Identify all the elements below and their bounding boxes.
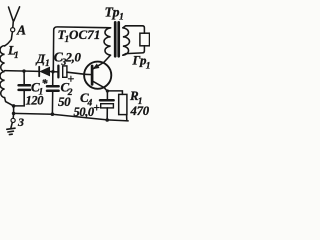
label C1* 120 xyxy=(26,76,49,108)
capacitor C4 xyxy=(94,100,113,120)
svg-text:470: 470 xyxy=(130,104,150,118)
svg-text:Тр: Тр xyxy=(105,5,120,20)
label Gr1 xyxy=(132,53,151,72)
transformer Tr1 xyxy=(104,22,129,56)
wire to R1 top xyxy=(107,91,122,95)
label Tr1 xyxy=(105,5,124,23)
headphone Gr1 xyxy=(140,33,150,46)
svg-text:3: 3 xyxy=(17,115,24,129)
wire L1 tap to diode xyxy=(5,70,39,73)
inductor L1 xyxy=(0,46,5,98)
transistor T1 OC71 xyxy=(84,55,111,99)
wire phones return xyxy=(123,46,144,55)
capacitor C1 xyxy=(14,71,30,106)
svg-text:1: 1 xyxy=(45,59,50,69)
label C3 2,0 xyxy=(54,50,82,68)
node C1 top xyxy=(22,69,25,72)
capacitor C3 xyxy=(58,66,84,82)
wire feedback to transformer xyxy=(53,27,106,72)
label L1 xyxy=(7,43,19,62)
wire secondary to phones xyxy=(123,26,144,33)
svg-text:120: 120 xyxy=(26,94,45,108)
node C4 bottom xyxy=(105,118,109,122)
node detector xyxy=(51,70,54,73)
capacitor C2 xyxy=(47,72,59,114)
node L1 bottom xyxy=(12,104,16,108)
node collector/R1 xyxy=(106,89,109,92)
svg-text:1: 1 xyxy=(14,51,19,61)
terminal 3 xyxy=(11,118,15,122)
label C4 50,0 xyxy=(74,90,95,119)
wire L1 bottom diagonal xyxy=(5,98,14,106)
label R1 470 xyxy=(129,88,150,118)
svg-text:А: А xyxy=(16,23,26,38)
label C2 50 xyxy=(58,80,73,109)
diode D1 xyxy=(39,67,58,76)
svg-text:50: 50 xyxy=(58,94,71,109)
svg-text:ОС71: ОС71 xyxy=(69,27,100,42)
antenna A xyxy=(5,7,20,46)
svg-text:Гр: Гр xyxy=(132,53,147,68)
node C2 bottom xyxy=(51,112,55,116)
svg-text:2,0: 2,0 xyxy=(65,50,82,64)
bottom rail xyxy=(14,113,129,121)
label T1 OC71 xyxy=(58,27,101,45)
wire R1 bottom xyxy=(126,115,128,121)
resistor R1 xyxy=(119,94,127,114)
svg-text:1: 1 xyxy=(119,12,124,23)
svg-text:Д: Д xyxy=(36,52,46,66)
svg-text:*: * xyxy=(42,76,49,90)
node rail left xyxy=(12,112,16,116)
label D1 xyxy=(36,52,50,69)
wire to earth terminal xyxy=(12,106,14,118)
svg-text:1: 1 xyxy=(146,62,150,72)
ground xyxy=(7,123,15,135)
